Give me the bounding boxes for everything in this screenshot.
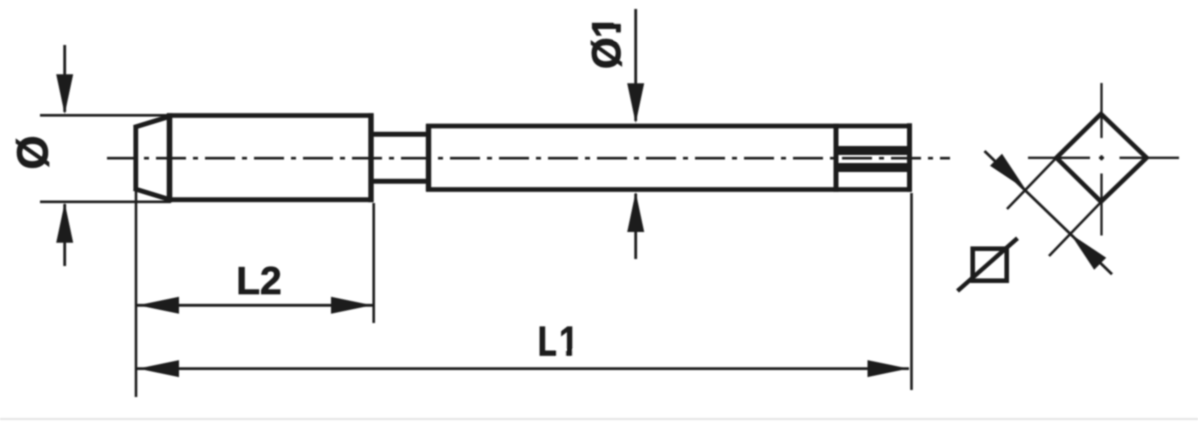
across-flats extension line (lower-right flat extended) xyxy=(1049,200,1104,257)
across-flats arrowhead lower (pointing up-left) xyxy=(1071,234,1107,270)
shank top edge xyxy=(426,124,912,129)
square section horizontal centerline left dash xyxy=(1028,157,1090,159)
Ø1 lower arrowhead pointing up xyxy=(627,192,644,232)
mask: remove foot serif upper side of O1 one xyxy=(614,16,623,24)
L2 left arrowhead xyxy=(138,297,179,314)
square drive boundary vertical xyxy=(834,124,839,192)
square section vertical centerline upper dash xyxy=(1100,83,1102,138)
L1 left arrowhead xyxy=(138,360,179,377)
L2 right extension line xyxy=(372,203,375,323)
Ø1 upper arrowhead pointing down xyxy=(627,83,644,123)
Ø1 dimension line upper segment xyxy=(634,9,637,121)
square section horizontal centerline center dot xyxy=(1099,157,1104,159)
L1 right extension line xyxy=(910,193,913,390)
mask: remove foot serif lower side of O1 one xyxy=(614,33,623,41)
across-flats dimension line at 45deg xyxy=(985,151,1113,274)
Ø1 dimension line lower segment xyxy=(634,194,637,260)
chamfer bottom slant line xyxy=(134,189,171,200)
square drive upper flat bar xyxy=(839,146,908,155)
across-flats arrowhead upper (pointing down-right) xyxy=(990,154,1026,190)
svg-text:Ø1: Ø1 xyxy=(584,16,630,69)
tap tip end face (chamfer small end) xyxy=(133,126,138,189)
square-drive symbol (square with slash) box xyxy=(973,249,1007,281)
threaded body bottom edge xyxy=(167,197,374,202)
threaded body top edge xyxy=(167,113,374,118)
bottom page separator line xyxy=(0,418,1198,420)
centerline of tap axis xyxy=(107,157,950,160)
chamfer top slant line xyxy=(134,116,171,127)
Ø lower arrowhead pointing up xyxy=(56,203,73,243)
across-flats extension line (upper-left flat extended) xyxy=(1007,155,1060,210)
svg-text:Ø: Ø xyxy=(9,135,58,169)
Ø dimension line lower segment xyxy=(63,204,66,266)
square section vertical centerline center dot xyxy=(1100,155,1102,160)
square section horizontal centerline right dash xyxy=(1120,157,1180,159)
shank left step edge xyxy=(426,124,431,191)
L2/L1 left extension line (from tap tip) xyxy=(135,191,138,397)
Ø top extension line xyxy=(40,114,167,117)
square drive lower flat bar xyxy=(839,163,908,172)
square drive cross-section (square rotated 45deg) xyxy=(1056,114,1146,202)
Ø dimension line upper segment xyxy=(63,45,66,112)
shank bottom edge xyxy=(426,187,912,192)
mask: remove foot serif right of L1 one xyxy=(572,350,581,359)
threaded body right edge xyxy=(368,113,373,202)
svg-text:L2: L2 xyxy=(236,260,282,303)
mask: remove foot serif left of L1 one xyxy=(557,350,566,359)
neck bottom edge xyxy=(371,179,430,184)
neck top edge xyxy=(371,132,430,137)
Ø bottom extension line xyxy=(40,201,171,204)
L2 dimension line xyxy=(136,304,373,307)
shank right end vertical edge xyxy=(907,123,912,191)
thread start vertical line (chamfer/body boundary) xyxy=(167,113,173,202)
square-drive symbol slash xyxy=(958,238,1018,291)
L1 dimension line xyxy=(136,367,909,370)
L2 right arrowhead xyxy=(331,297,372,314)
Ø upper arrowhead pointing down xyxy=(56,74,73,114)
square section vertical centerline lower dash xyxy=(1100,174,1102,236)
L1 right arrowhead xyxy=(868,360,909,377)
